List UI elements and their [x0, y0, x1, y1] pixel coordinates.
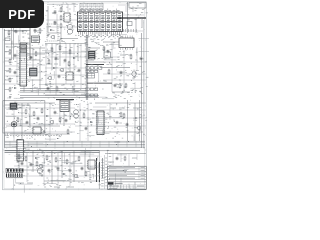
capacitor C405 [81, 167, 83, 168]
wire [43, 152, 45, 186]
text label [6, 46, 15, 48]
resistor R305 [120, 112, 122, 113]
wire [56, 14, 58, 33]
dark cluster component U104 [30, 68, 38, 76]
wire [132, 6, 134, 12]
wire [39, 48, 41, 90]
transistor Q101 [51, 35, 54, 38]
resistor R130 [51, 47, 53, 48]
wire thick bar [56, 99, 74, 101]
wire [73, 4, 75, 12]
resistor R3 [9, 68, 11, 69]
wire [61, 38, 78, 40]
wire [75, 117, 146, 119]
wire [104, 155, 106, 189]
text label column [105, 157, 107, 159]
IC U303 vertical [97, 111, 104, 135]
wire [6, 125, 60, 127]
dark cluster U106 hatch [89, 52, 94, 54]
resistor R306 [123, 113, 125, 114]
wire [5, 51, 10, 53]
dark cluster IC U402A [6, 168, 23, 172]
small IC U302 [33, 127, 41, 134]
wire [16, 50, 18, 84]
wire [27, 64, 45, 66]
wire [112, 91, 130, 93]
resistor R112 [8, 30, 10, 31]
flat box top-right [129, 3, 146, 9]
wire thick [86, 64, 104, 66]
capacitor C406 [48, 169, 50, 170]
ground [73, 88, 75, 91]
resistor R304 [59, 117, 61, 118]
wire [141, 33, 143, 148]
wire [45, 44, 47, 85]
capacitor C407 [116, 157, 118, 158]
wire [23, 86, 25, 92]
transistor Q201 [132, 72, 136, 76]
transistor Q102 [60, 68, 63, 71]
wire [5, 60, 10, 62]
text label [132, 157, 137, 159]
node A [127, 17, 128, 18]
wire [11, 41, 13, 44]
wire [120, 154, 122, 163]
wire [95, 102, 146, 104]
diode D301 [46, 115, 48, 117]
small IC U102 [64, 13, 70, 22]
capacitor C120 [14, 54, 16, 55]
resistor R402 [25, 156, 27, 157]
capacitor C304 [116, 121, 118, 122]
wire [10, 133, 70, 135]
wire [5, 115, 75, 117]
IC U401 vertical [17, 140, 23, 162]
wire [5, 104, 30, 106]
ground [47, 34, 49, 37]
wire [45, 94, 86, 96]
diode D105 [53, 67, 55, 69]
resistor R301 [25, 109, 27, 110]
wire thick [87, 82, 112, 84]
resistor R406 [78, 156, 80, 157]
wire [117, 30, 143, 32]
wire [5, 83, 20, 85]
wire [141, 18, 143, 28]
wire [143, 20, 145, 148]
resistor R1 [9, 49, 11, 50]
wire [49, 103, 51, 141]
U301 hatch [61, 101, 68, 103]
wire [61, 151, 63, 178]
ground [9, 96, 11, 99]
capacitor C401 [21, 162, 23, 163]
wire [103, 79, 146, 81]
resistor R307 [83, 113, 85, 114]
capacitor C402 [30, 163, 32, 164]
wire pair [11, 27, 13, 60]
dark module M301 [10, 103, 17, 110]
wire [77, 44, 79, 61]
resistor R134 [48, 59, 50, 60]
wire [5, 70, 10, 72]
wire [5, 65, 20, 67]
wire [5, 43, 30, 45]
wire [103, 131, 143, 133]
PDF badge [0, 0, 44, 28]
dark cluster U106 [89, 51, 96, 59]
transistor Q103 [48, 76, 51, 79]
resistor R403 [46, 155, 48, 156]
resistor R204 [103, 46, 105, 47]
resistor array row [86, 67, 89, 69]
capacitor C105 [54, 11, 56, 12]
wire [45, 43, 86, 45]
capacitor C306 [85, 127, 87, 128]
wire [125, 6, 127, 12]
capacitor C204 [107, 50, 109, 51]
stacked cells [87, 73, 95, 78]
IC U201 [119, 38, 134, 48]
resistor R131 [59, 45, 61, 46]
fuse F101 [5, 38, 10, 41]
wire [136, 154, 138, 161]
wire [59, 39, 61, 66]
wire [109, 103, 111, 120]
resistor R205 [130, 54, 132, 55]
capacitor C404 [69, 169, 71, 170]
ground [43, 130, 45, 133]
text row above block [79, 10, 82, 12]
wire [18, 151, 20, 168]
wire [5, 75, 20, 77]
dark component U301 [60, 100, 69, 112]
wire [5, 79, 10, 81]
wire [123, 50, 125, 92]
wire [88, 47, 100, 49]
wire [15, 102, 55, 104]
resistor R132 [69, 49, 71, 50]
text label [16, 182, 24, 184]
transistor Q403 [37, 168, 42, 173]
resistor R4 [9, 77, 11, 78]
wire [111, 42, 113, 92]
diode D303 [90, 121, 92, 123]
wire [79, 103, 81, 141]
small box [127, 22, 132, 26]
cell row2 [86, 94, 89, 96]
resistor R408 [85, 171, 87, 172]
capacitor C121 [14, 71, 16, 72]
capacitor C133 [58, 75, 60, 76]
transistor Q401 [39, 164, 42, 167]
diode D102 [22, 30, 24, 32]
wire [45, 74, 86, 76]
wire [100, 67, 130, 69]
wire [118, 4, 129, 6]
wire [5, 150, 140, 152]
wire [5, 123, 75, 125]
wire [63, 112, 65, 127]
capacitor C303 [65, 119, 67, 120]
wire [136, 47, 138, 70]
wire [75, 125, 146, 127]
vertical text column [101, 159, 103, 161]
transistor Q402 [74, 174, 77, 177]
wire [127, 100, 129, 141]
wire [89, 152, 91, 180]
title block table [108, 166, 147, 189]
wire [45, 56, 86, 58]
text label [120, 54, 126, 56]
wire [45, 51, 86, 53]
wire [107, 150, 109, 189]
wire [32, 151, 34, 172]
wire [73, 151, 75, 182]
wire [4, 30, 30, 32]
wire [139, 100, 141, 141]
diode D101 [50, 29, 52, 31]
transformer T101 [67, 24, 72, 29]
wire [14, 175, 99, 177]
wire [75, 109, 146, 111]
wire [26, 152, 28, 182]
wire double bottom bus [5, 149, 99, 151]
resistor R405 [66, 159, 68, 160]
wire bus mid extension [20, 95, 99, 97]
capacitor C203 [114, 84, 116, 85]
relay RY101 hatch [32, 37, 38, 39]
capacitor C302 [26, 121, 28, 122]
resistor R302 [33, 111, 35, 112]
small block U202 [104, 52, 111, 58]
wire bus vertical [85, 35, 87, 100]
junction dots [6, 120, 9, 123]
resistor R5 [9, 87, 11, 88]
capacitor C134 [78, 69, 80, 70]
component ticks row [117, 29, 119, 32]
bus pin ticks [85, 36, 86, 38]
border frame outer [3, 2, 147, 190]
wire [61, 4, 63, 12]
wire [51, 151, 53, 184]
wire [29, 105, 31, 128]
wire [103, 41, 119, 43]
capacitor C132 [47, 87, 49, 88]
title block sub-rows [108, 184, 147, 186]
wire [88, 61, 104, 63]
transistor Q301 [50, 120, 53, 123]
resistor R135 [68, 61, 70, 62]
small IC U105 [66, 72, 73, 80]
resistor R203 [125, 83, 127, 84]
wire main left bus [4, 29, 6, 148]
capacitor C106 [54, 21, 56, 22]
text label [110, 107, 116, 109]
wire [69, 152, 71, 186]
ground [41, 174, 43, 177]
resistor R104 [60, 23, 62, 24]
wire [112, 154, 114, 167]
wire [19, 28, 21, 43]
wire [5, 107, 75, 109]
IC U101 pins [78, 32, 80, 34]
relay RY101 [32, 36, 40, 43]
wire bus under U103 [20, 88, 86, 90]
text label [8, 107, 15, 109]
wire [5, 131, 75, 133]
dark cluster strokes [6, 173, 8, 177]
diode D104 [73, 57, 75, 59]
capacitor C307 [54, 111, 56, 112]
wire [69, 44, 71, 76]
wire [127, 2, 129, 33]
wire [29, 26, 31, 60]
diode D302 [135, 117, 137, 119]
wire [27, 47, 45, 49]
schematic drawing [0, 0, 149, 198]
wire [5, 152, 100, 154]
diode D402 [63, 173, 65, 175]
small IC U402 [88, 160, 95, 169]
resistor R121 [35, 51, 37, 52]
wire [51, 44, 53, 71]
resistor R2 [9, 58, 11, 59]
wire [122, 14, 144, 16]
wire [60, 28, 62, 40]
wire bus horizontal band [5, 140, 145, 142]
resistor R409 [124, 156, 126, 157]
capacitor C206 [120, 71, 122, 72]
capacitor C403 [57, 167, 59, 168]
text label [54, 186, 60, 188]
annotation text texture [66, 3, 67, 5]
wire [14, 165, 99, 167]
wire [45, 83, 86, 85]
resistor R202 [119, 83, 121, 84]
wire [57, 152, 59, 186]
wire [27, 53, 45, 55]
wire [103, 61, 146, 63]
wire [45, 67, 86, 69]
resistor R133 [56, 86, 58, 87]
resistor array row2 [86, 70, 89, 72]
wire mesh texture [29, 114, 31, 124]
dark cluster hatch [30, 69, 36, 71]
wire [67, 4, 69, 12]
bus junction ticks [9, 141, 11, 147]
wire [98, 150, 100, 189]
vertical bars cluster [96, 158, 98, 182]
section boundary box [3, 101, 45, 133]
wire [27, 71, 45, 73]
wire [80, 44, 82, 89]
IC U201 pins [120, 36, 122, 39]
border frame ticks [11, 2, 13, 190]
diode D103 [14, 87, 16, 89]
capacitor C131 [64, 59, 66, 60]
cell row [86, 88, 89, 90]
capacitor C122 [30, 56, 32, 57]
capacitor C205 [140, 57, 142, 58]
capacitor C130 [55, 57, 57, 58]
connector table header [80, 3, 103, 10]
title block logo cell [108, 182, 114, 184]
wire [5, 89, 10, 91]
resistor R404 [55, 157, 57, 158]
wire [46, 26, 78, 28]
inductor L301 coil [11, 122, 16, 127]
wire [105, 153, 146, 155]
wire [103, 73, 146, 75]
wire [103, 56, 120, 58]
IC U103 vertical [20, 43, 27, 86]
scan noise texture [80, 121, 82, 123]
wire [14, 169, 44, 171]
wire [87, 103, 89, 141]
title block logo text [115, 182, 123, 184]
wire [48, 32, 61, 34]
transformer T301 [74, 110, 79, 115]
wire [14, 155, 99, 157]
capacitor C113 [15, 30, 17, 31]
resistor R303 [41, 108, 43, 109]
wire [69, 100, 71, 120]
resistor R407 [36, 161, 38, 162]
resistor R309 [67, 129, 69, 130]
resistor R103 [60, 15, 62, 16]
border frame inner [4, 3, 145, 189]
diode D401 [35, 157, 37, 159]
capacitor C110 [34, 29, 36, 30]
wire [46, 19, 78, 21]
resistor R206 [108, 69, 110, 70]
wire [13, 105, 15, 141]
resistor R308 [17, 117, 19, 118]
wire [27, 79, 42, 81]
wire [27, 59, 40, 61]
wire [73, 44, 75, 96]
resistor R111 [39, 28, 41, 29]
wire [134, 103, 136, 141]
wire [84, 151, 86, 176]
wire [65, 44, 67, 85]
wire thick top-right [117, 17, 146, 19]
wire [55, 44, 57, 96]
wire [21, 103, 23, 140]
IC U101 main block [78, 12, 123, 32]
resistor R102 [60, 7, 62, 8]
wire [47, 6, 49, 33]
capacitor C305 [126, 123, 128, 124]
wire [47, 4, 78, 6]
resistor R401 [18, 154, 20, 155]
wire [5, 57, 20, 59]
IC U103 top hatch [20, 44, 26, 46]
dashed sub-block [47, 24, 58, 41]
dashed section boundary [5, 135, 62, 137]
text label [46, 63, 52, 65]
transistor Q302 [137, 126, 140, 129]
wire [135, 18, 137, 33]
wire [128, 154, 130, 167]
wire [32, 48, 34, 68]
wire [44, 180, 100, 182]
capacitor C301 [37, 117, 39, 118]
